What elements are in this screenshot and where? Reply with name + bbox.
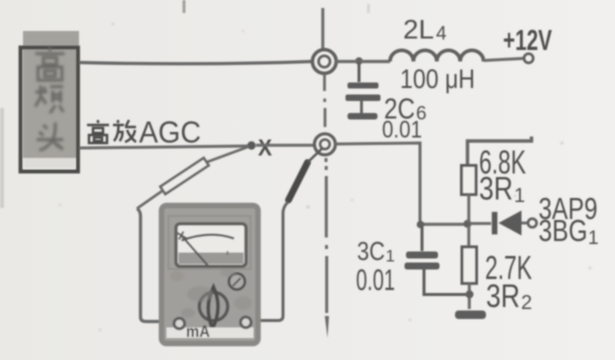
capacitor 3C1 top lead [421, 226, 424, 251]
tuner box bottom light strip [24, 158, 75, 168]
svg-text:100 μH: 100 μH [400, 64, 475, 94]
probe P1 body (hollow) [160, 158, 208, 194]
feedthrough capacitor top (outer ring) [312, 50, 336, 74]
top tick mark [183, 0, 186, 13]
wire: feedthrough B to corner [335, 143, 420, 224]
center shield line (dash-dot) upper segment [321, 8, 324, 49]
panel mottling [170, 269, 252, 318]
svg-text:3BG: 3BG [539, 213, 588, 248]
terminal +12V [524, 54, 533, 63]
glyph 高 (box) [35, 47, 64, 80]
glyph 头 (box) [37, 122, 64, 150]
node line (AGC node) [419, 223, 469, 226]
svg-text:3C: 3C [357, 236, 385, 266]
meter needle [181, 235, 209, 267]
rotary switch pointer (lens) [208, 287, 218, 329]
meter window recess [169, 216, 251, 269]
capacitor 2C6 lower lead [360, 101, 363, 113]
svg-text:0.01: 0.01 [356, 264, 395, 297]
probe P1 lead from X [207, 147, 249, 163]
svg-text:X: X [258, 135, 273, 161]
probe P1 lower lead [137, 190, 164, 209]
wire: feedthrough to inductor [335, 60, 390, 63]
multimeter body [162, 206, 259, 344]
meter left wire [137, 209, 173, 322]
needle pivot cross [178, 232, 188, 240]
ground (2C6) [348, 113, 378, 120]
small tick in window [227, 251, 229, 255]
node X dot [247, 141, 255, 149]
capacitor 2C6 plates [348, 83, 379, 89]
resistor 3R2 body [462, 247, 477, 284]
shield line below (dash-dot with taper) [325, 158, 329, 313]
svg-text:mA: mA [186, 322, 210, 341]
meter scale arc [182, 235, 235, 241]
svg-text:1: 1 [386, 247, 395, 266]
shield line taper end [325, 316, 329, 338]
shield line between feedthroughs [323, 74, 326, 127]
probe P2 (right, solid) [289, 163, 308, 201]
junction dot (3R2/3C1) [466, 290, 474, 298]
svg-text:0.01: 0.01 [382, 117, 422, 144]
diode V1 triangle [499, 211, 522, 236]
svg-text:3R: 3R [486, 278, 520, 314]
svg-text:1: 1 [588, 228, 599, 249]
capacitor 3C1 bottom lead and wire to 3R2 bottom [424, 270, 467, 295]
knob small [229, 274, 245, 290]
left edge scan streak [0, 108, 4, 208]
feedthrough capacitor top (inner ring) [319, 56, 330, 67]
meter right wire [252, 202, 289, 321]
wire: tuner top output to feedthrough C-A [79, 62, 312, 64]
glyph 频 (box) [35, 85, 63, 113]
feedthrough capacitor bottom (inner ring) [320, 140, 330, 150]
capacitor 3C1 plates [406, 252, 438, 259]
svg-text:+12V: +12V [503, 25, 552, 57]
glyph 放 (label) [113, 120, 136, 142]
inductor 2L4 [390, 50, 484, 61]
svg-text:2L: 2L [403, 15, 434, 45]
terminal (diode output) [528, 219, 537, 228]
node J1: junction dot on +12V wire [355, 57, 363, 65]
resistor 3R2 top lead [467, 226, 470, 247]
diode wire from node [470, 222, 491, 225]
resistor 3R1 body [462, 166, 477, 195]
svg-text:2: 2 [521, 292, 532, 314]
tuner box U1 border [21, 48, 79, 172]
meter display window [176, 224, 246, 266]
svg-text:4: 4 [436, 24, 447, 45]
svg-text:AGC: AGC [139, 115, 201, 150]
paper specks [59, 23, 592, 332]
glyph 高 (label) [87, 120, 109, 143]
svg-text:3R: 3R [479, 171, 513, 207]
junction dot left [417, 221, 425, 229]
feedthrough capacitor bottom (outer ring) [314, 134, 335, 155]
faint speck top middle [367, 4, 370, 13]
junction dot right [464, 220, 472, 228]
resistor 3R2 bottom lead [468, 284, 471, 310]
wire: inductor to +12V terminal [484, 58, 524, 60]
diode V1 cathode bar [492, 212, 498, 235]
wire: X to feedthrough C-B [256, 144, 314, 147]
wire: AGC from tuner to X [79, 146, 248, 148]
terminal right [241, 317, 252, 328]
window lower shading [179, 253, 244, 265]
rotary switch circle [199, 292, 227, 320]
diode output wire [522, 222, 528, 225]
tuner box U1 (高频头) grey fill [23, 31, 79, 158]
resistor 3R1 top feed line [468, 137, 532, 167]
probe P2 tip [308, 148, 323, 163]
ground (3R2) [455, 311, 486, 320]
terminal left [174, 318, 185, 329]
resistor 3R1 bottom lead [467, 195, 470, 223]
meter bottom white strip [167, 328, 254, 339]
capacitor 2C6 lead [358, 61, 361, 82]
